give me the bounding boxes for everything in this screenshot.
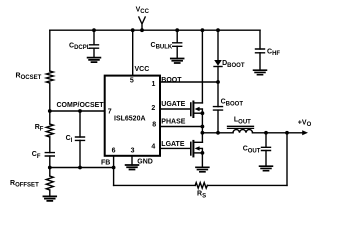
- capacitor CF: [45, 153, 54, 156]
- wire: rail to IC VCC pin 5: [132, 30, 134, 75]
- resistor RF: [46, 124, 53, 137]
- wire: COUT to ground: [265, 151, 267, 167]
- svg-text:2: 2: [151, 105, 155, 112]
- wire: feedback column up to output line: [286, 133, 288, 186]
- svg-text:3: 3: [131, 147, 135, 154]
- wire: RF to CF: [49, 137, 51, 153]
- svg-text:COMP/OCSET: COMP/OCSET: [57, 102, 105, 109]
- wire: ROCSET to COMP/OCSET junction: [49, 83, 51, 111]
- svg-text:5: 5: [130, 77, 134, 84]
- node: IC VCC pin junction on rail: [131, 28, 135, 32]
- node: upper FET drain junction on rail: [201, 28, 205, 32]
- wire: CHF to ground: [259, 53, 261, 70]
- capacitor CBULK: [173, 43, 182, 47]
- wire: LGATE pin 4 to lower FET gate: [160, 147, 190, 149]
- capacitor COUT: [262, 147, 271, 150]
- transistor Q1 (upper MOSFET): [191, 102, 205, 118]
- ground (COUT): [260, 166, 273, 171]
- svg-text:LGATE: LGATE: [161, 141, 185, 148]
- wire: COUT lead: [265, 133, 267, 148]
- wire: output line inductor to arrow: [253, 132, 304, 134]
- wire: RS line left segment: [114, 184, 196, 186]
- wire: DBOOT cathode to BOOT line: [217, 67, 219, 83]
- capacitor CDCPL: [90, 45, 99, 48]
- wire: BOOT pin 1 to CBOOT/DBOOT column: [160, 81, 218, 83]
- wire: left column COMP junction to RF: [49, 111, 51, 124]
- svg-text:UGATE: UGATE: [161, 101, 185, 108]
- capacitor CBULK lead: [176, 30, 178, 43]
- ground (ROFFSET): [43, 196, 56, 201]
- wire: phase column to output line: [201, 127, 203, 133]
- svg-text:COUT: COUT: [243, 146, 261, 155]
- wire: FB line: [50, 167, 114, 169]
- node: phase junction on output line: [201, 131, 205, 135]
- node: CBULK junction on rail: [175, 28, 179, 32]
- svg-text:6: 6: [112, 147, 116, 154]
- inductor LOUT: [228, 126, 254, 133]
- svg-text:7: 7: [108, 109, 112, 116]
- op-amp IC U1 ISL6520A box: [105, 76, 160, 156]
- wire: phase node down to lower FET drain: [201, 133, 203, 143]
- output arrow +VO: [302, 130, 308, 135]
- svg-text:+VO: +VO: [298, 119, 312, 128]
- svg-text:CF: CF: [32, 151, 41, 160]
- wire: CI bottom lead to FB line: [79, 140, 81, 167]
- node: DBOOT junction on rail: [216, 28, 220, 32]
- ground (CBULK): [171, 59, 184, 64]
- svg-text:CI: CI: [66, 135, 73, 144]
- resistor RS: [195, 183, 207, 189]
- VCC terminal: [139, 17, 145, 30]
- svg-text:PHASE: PHASE: [161, 119, 185, 126]
- node: FB junction: [112, 166, 116, 170]
- svg-text:1: 1: [152, 81, 156, 88]
- wire: rail corner to CHF: [259, 30, 261, 49]
- wire: CI top lead: [79, 111, 81, 137]
- svg-text:CDCPL: CDCPL: [69, 42, 91, 51]
- wire: BOOT junction to CBOOT: [217, 82, 219, 107]
- svg-text:CBOOT: CBOOT: [221, 99, 244, 108]
- wire: CF to FB line: [49, 156, 51, 168]
- wire: output line phase node to inductor: [202, 132, 233, 134]
- diode DBOOT: [214, 60, 222, 67]
- svg-text:RF: RF: [35, 124, 44, 133]
- wire: CBOOT to phase line: [217, 110, 219, 133]
- node: PHASE junction: [201, 125, 205, 129]
- wire: FB pin 6 lead down: [113, 156, 115, 168]
- wire: PHASE pin 8 to phase column: [160, 126, 202, 128]
- ground (IC GND pin): [126, 165, 139, 170]
- node: COMP/OCSET junction on left column: [48, 109, 52, 113]
- wire: rail to upper FET drain: [201, 30, 203, 103]
- svg-text:BOOT: BOOT: [161, 77, 182, 84]
- wire: CBULK to ground: [176, 46, 178, 58]
- wire: FB node down to RS line: [113, 168, 115, 186]
- node: CBOOT junction on phase line: [216, 131, 220, 135]
- node: FB junction on left column: [48, 166, 52, 170]
- wire: UGATE pin 2 to upper FET gate: [160, 108, 190, 110]
- transistor Q2 (lower MOSFET): [191, 141, 205, 157]
- wire: left column FB junction to ROFFSET: [49, 168, 51, 177]
- node: COUT junction on output line: [264, 131, 268, 135]
- svg-text:LOUT: LOUT: [234, 117, 251, 126]
- wire: left column from rail to ROCSET: [49, 30, 51, 71]
- node: CDCPL junction on rail: [92, 28, 96, 32]
- node: CI junction on FB line: [78, 166, 82, 170]
- wire: lower FET source to ground: [201, 153, 203, 167]
- svg-text:VCC: VCC: [135, 66, 150, 73]
- ground (CHF): [254, 70, 267, 75]
- capacitor CBOOT: [214, 107, 223, 111]
- node: CI junction on COMP line: [78, 109, 82, 113]
- wire: upper FET source to phase node: [201, 113, 203, 126]
- svg-text:RS: RS: [197, 191, 206, 200]
- svg-text:8: 8: [152, 121, 156, 128]
- wire: ROFFSET to ground: [49, 190, 51, 196]
- node: BOOT junction: [216, 80, 220, 84]
- ground (lower MOSFET): [196, 167, 209, 172]
- wire: COMP/OCSET line to pin 7: [50, 110, 105, 112]
- svg-text:VCC: VCC: [136, 7, 150, 16]
- wire: top VCC rail: [50, 29, 260, 31]
- svg-text:FB: FB: [101, 159, 110, 166]
- svg-text:ISL6520A: ISL6520A: [114, 116, 146, 123]
- svg-text:DBOOT: DBOOT: [222, 60, 245, 69]
- capacitor CI: [76, 137, 85, 140]
- wire: rail to DBOOT anode: [217, 30, 219, 60]
- svg-text:GND: GND: [137, 158, 153, 165]
- resistor ROFFSET: [46, 176, 53, 190]
- node: feedback junction on output line: [285, 131, 289, 135]
- node: VCC terminal junction on rail: [140, 28, 144, 32]
- capacitor CHF: [256, 49, 265, 53]
- ground (CDCPL): [88, 58, 101, 63]
- svg-text:CBULK: CBULK: [151, 42, 173, 51]
- capacitor CDCPL lead from rail: [93, 30, 95, 45]
- svg-text:CHF: CHF: [267, 48, 280, 57]
- wire: CDCPL to ground: [93, 48, 95, 57]
- wire: RS line right segment: [207, 184, 287, 186]
- resistor ROCSET: [46, 71, 53, 83]
- svg-text:ROFFSET: ROFFSET: [10, 180, 39, 189]
- svg-text:ROCSET: ROCSET: [16, 73, 42, 82]
- svg-text:4: 4: [151, 144, 155, 151]
- wire: GND pin 3 lead down: [131, 156, 133, 165]
